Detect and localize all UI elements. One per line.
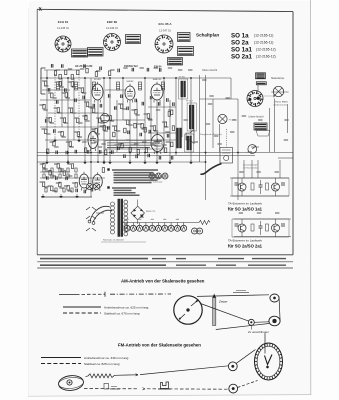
- value label 58: [184, 119, 188, 121]
- value label 74: [82, 92, 86, 94]
- value label 63: [239, 171, 243, 173]
- output stage part 13: [63, 188, 65, 192]
- heater lamp symbol 1: [124, 223, 130, 232]
- can electrolytic C50: [101, 114, 110, 123]
- value label 131: [284, 119, 288, 121]
- value label 71: [59, 86, 63, 88]
- wire vertical v19: [163, 78, 165, 152]
- svg-text:mit Netzschalter: mit Netzschalter: [243, 167, 258, 170]
- ground symbol 10: [189, 160, 193, 164]
- capacitor C8: [108, 94, 110, 98]
- heater lamp symbol 6: [156, 223, 162, 232]
- value label 40: [126, 139, 130, 141]
- capacitor C20: [75, 150, 77, 154]
- wire horizontal h25: [148, 132, 176, 134]
- value label 86: [104, 130, 108, 132]
- value label 5: [68, 81, 72, 83]
- svg-text:Schaltplan: Schaltplan: [196, 33, 219, 38]
- tube V7 ECL86 pentode: [151, 132, 164, 154]
- heater pin label 1: [125, 218, 128, 220]
- resistor R27: [164, 122, 166, 127]
- output stage part 6: [43, 174, 45, 178]
- svg-text:(Unteransicht): (Unteransicht): [274, 104, 287, 107]
- coil L6: [161, 82, 164, 90]
- can electrolytic C52: [93, 183, 99, 189]
- svg-text:2x umschlingen: 2x umschlingen: [248, 330, 269, 334]
- capacitor C35: [51, 64, 53, 68]
- legend group2 line 4: [114, 194, 140, 196]
- tube socket U3 pin legend box below: [168, 58, 183, 66]
- wire vertical v9: [97, 100, 99, 162]
- heater lamp symbol 5: [149, 223, 155, 232]
- value label 21: [118, 103, 122, 105]
- resistor R25: [147, 114, 149, 119]
- AM cord dash-dot run: [110, 293, 171, 295]
- wire horizontal h23: [251, 146, 259, 148]
- svg-text:(12-2165-12): (12-2165-12): [256, 48, 276, 52]
- striped box below socket: [254, 123, 267, 130]
- tube socket U3 pin legend box upper right: [178, 33, 191, 42]
- junction dot 6: [122, 77, 124, 79]
- wire horizontal h20: [234, 218, 291, 220]
- resistor R48: [42, 182, 44, 187]
- can electrolytic C51: [86, 183, 92, 189]
- potentiometer P1 body: [220, 148, 233, 164]
- value label 134: [284, 139, 288, 141]
- value label 111: [59, 187, 63, 189]
- value label 45: [166, 141, 170, 143]
- wire vertical v3: [61, 78, 63, 127]
- value label 103: [130, 144, 134, 146]
- value label 91: [135, 114, 139, 116]
- wire horizontal h7: [108, 119, 145, 121]
- value label 41: [134, 143, 138, 145]
- capacitor C2: [57, 100, 59, 104]
- output stage part 9: [67, 174, 69, 178]
- FM dashed cord pulley to wheel: [238, 381, 258, 388]
- wire horizontal h21: [234, 236, 291, 238]
- value label 61: [214, 135, 218, 137]
- FM cord arrow tick: [136, 374, 139, 376]
- value label 9: [96, 117, 100, 119]
- wire horizontal h16: [200, 98, 239, 100]
- wire horizontal h10: [37, 152, 293, 154]
- capacitor C6: [93, 104, 95, 108]
- junction dot 1: [46, 77, 48, 79]
- capacitor C36: [62, 64, 64, 68]
- capacitor C44: [118, 146, 120, 150]
- mains switch contact 1: [86, 207, 96, 210]
- wire vertical v31: [243, 160, 245, 178]
- capacitor C1: [48, 88, 50, 92]
- value label 89: [122, 108, 126, 110]
- value label 23: [131, 109, 135, 111]
- value label 32: [58, 131, 62, 133]
- TA-Entzerrer circuit 1 (transistors T1 T2): [232, 178, 289, 196]
- value label 16: [82, 115, 86, 117]
- wire vertical v10: [103, 78, 105, 162]
- value label 132: [217, 143, 221, 145]
- resistor R62: [47, 149, 49, 154]
- boxed note above speaker: [105, 141, 162, 150]
- tube socket U3 pin legend box lower right: [178, 47, 194, 56]
- power transformer label: [101, 239, 146, 243]
- value label 82: [72, 112, 76, 114]
- wire horizontal h8: [40, 126, 110, 128]
- value label 18: [100, 125, 104, 127]
- wire vertical v15: [136, 100, 138, 152]
- AM legend dashed cable sample: [63, 312, 101, 314]
- value label 87: [110, 120, 114, 122]
- AM top cord label marks: [233, 290, 249, 292]
- svg-text:Netztrafo 12-1344-50: Netztrafo 12-1344-50: [103, 239, 124, 242]
- value label 95: [164, 126, 168, 128]
- resistor R40: [145, 148, 147, 153]
- value label 46: [40, 163, 44, 165]
- wire horizontal h19: [230, 195, 289, 197]
- ground symbol 13: [41, 194, 45, 198]
- output stage bottom wire: [41, 196, 92, 198]
- ground symbol 8: [155, 160, 159, 164]
- capacitor C40: [132, 68, 134, 72]
- value label 10: [39, 104, 43, 106]
- value label 4: [62, 92, 66, 94]
- junction dot 12: [67, 152, 69, 154]
- value label 98: [61, 136, 65, 138]
- svg-text:← Röhre EM84: ← Röhre EM84: [273, 101, 289, 104]
- capacitor C33: [84, 190, 86, 194]
- svg-text:FM-Antrieb von der Skalenseite: FM-Antrieb von der Skalenseite gesehen: [118, 343, 201, 348]
- tube socket U3 (bottom view): [155, 35, 173, 53]
- value label 39: [118, 143, 122, 145]
- mains plug cable: [90, 206, 112, 222]
- wire vertical v20: [169, 100, 171, 162]
- speaker: [186, 130, 194, 144]
- wire vertical v8: [90, 78, 92, 197]
- junction dot 7: [144, 77, 146, 79]
- wire vertical v14: [129, 100, 131, 162]
- FM legend solid cord sample: [41, 357, 81, 359]
- FM long cord to pulley: [140, 366, 229, 375]
- value label 112: [68, 190, 72, 192]
- capacitor C19: [66, 151, 68, 155]
- value label 77: [100, 122, 104, 124]
- wire horizontal h4: [105, 89, 125, 91]
- AM idler pulley: [248, 319, 254, 325]
- value label 88: [116, 130, 120, 132]
- wire horizontal h5: [40, 99, 90, 101]
- junction dot 17: [156, 152, 158, 154]
- heater lamp symbol 9: [174, 223, 180, 232]
- wire vertical v4: [67, 78, 69, 162]
- output stage part 1: [43, 168, 45, 172]
- antenna input bracket: [41, 68, 46, 94]
- tube V4 EL95 output: [79, 172, 89, 191]
- value label 29: [168, 109, 172, 111]
- wire horizontal h3: [42, 89, 70, 91]
- value label 107: [60, 168, 64, 170]
- IF transformer Fi3: [185, 134, 194, 152]
- value label 115: [80, 68, 84, 70]
- tube socket U1 (bottom view): [55, 36, 71, 52]
- table row1 text 4: [218, 258, 244, 260]
- value label 100: [78, 136, 82, 138]
- value label 7: [84, 101, 88, 103]
- bridge wire left: [96, 212, 104, 214]
- FM legend dashed cable sample: [41, 363, 81, 365]
- resistor R14: [70, 108, 72, 113]
- legend bullet 2: [108, 187, 110, 189]
- capacitor C48: [167, 134, 169, 138]
- value label 65: [275, 171, 279, 173]
- resistor R15: [77, 118, 79, 123]
- junction dot 11: [46, 152, 48, 154]
- svg-text:EBF 89: EBF 89: [107, 20, 118, 24]
- value label 17: [91, 128, 95, 130]
- svg-text:AM-Antrieb von der Skalenseite: AM-Antrieb von der Skalenseite gesehen: [121, 279, 205, 284]
- svg-text:für SO 1a/SO 1a1: für SO 1a/SO 1a1: [228, 207, 263, 212]
- resistor R43: [43, 163, 45, 168]
- ground symbol 7: [143, 160, 147, 164]
- svg-text:B250 C75: B250 C75: [146, 211, 156, 213]
- mains plug pins: [88, 220, 95, 224]
- junction dot 22: [97, 161, 99, 163]
- legend group1 line 5: [114, 179, 158, 181]
- value label 13: [60, 117, 64, 119]
- value label 72: [66, 97, 70, 99]
- wire vertical v24: [199, 75, 201, 162]
- capacitor C22: [99, 150, 101, 154]
- value label 126: [226, 97, 230, 99]
- value label 59: [194, 141, 198, 143]
- dial lamp La2: [273, 86, 283, 96]
- output stage part 2: [51, 168, 53, 172]
- heater pin label 7: [163, 218, 166, 220]
- resistor R35: [105, 150, 107, 155]
- value label 101: [98, 146, 102, 148]
- resistor R63: [124, 128, 126, 133]
- value label 122: [178, 69, 182, 71]
- wire horizontal h13: [40, 171, 70, 173]
- wire horizontal h11: [37, 155, 255, 157]
- resistor R54: [54, 71, 56, 76]
- capacitor C15: [158, 102, 160, 106]
- heater lamp symbol 3: [137, 223, 143, 232]
- svg-text:(12-2166-11): (12-2166-11): [254, 41, 273, 45]
- frame right line: [292, 12, 294, 255]
- junction dot 18: [175, 152, 177, 154]
- resistor R47: [71, 164, 73, 169]
- resistor R19: [109, 116, 111, 121]
- resistor R41: [164, 148, 166, 153]
- table row1 text 3: [176, 258, 186, 260]
- wire vertical v22: [181, 97, 183, 137]
- value label 66: [239, 212, 243, 214]
- wire horizontal h24: [148, 106, 176, 108]
- resistor R50: [59, 182, 61, 187]
- heater pin label 3: [138, 218, 141, 220]
- resistor R33: [77, 132, 79, 137]
- table row2 text 3: [216, 264, 236, 266]
- wire vertical v37: [279, 160, 281, 178]
- legend group1 line 6: [114, 182, 152, 184]
- legend bullet 1: [108, 169, 110, 171]
- capacitor C38: [100, 67, 102, 71]
- AM umschlingen arrow: [251, 326, 253, 330]
- value label 78: [43, 109, 47, 111]
- resistor R49: [51, 186, 53, 191]
- heater lamp symbol 4: [143, 223, 149, 232]
- value label 124: [202, 79, 206, 81]
- AM bottom cord back to pointer: [216, 324, 269, 330]
- value label 64: [256, 171, 260, 173]
- resistor R28: [171, 110, 173, 115]
- legend group2 line 1: [112, 187, 136, 189]
- label Lautstaerkeregler: [243, 164, 258, 170]
- value label 133: [248, 151, 252, 153]
- value label 35: [82, 141, 86, 143]
- value label 49: [60, 170, 64, 172]
- junction dot 3: [84, 77, 86, 79]
- value label 110: [52, 190, 56, 192]
- IF transformer Fi2: [187, 103, 196, 131]
- svg-text:ECH 81: ECH 81: [58, 20, 69, 24]
- wire vertical v38: [287, 104, 289, 133]
- capacitor C4: [75, 99, 77, 103]
- resistor R52: [75, 183, 77, 188]
- capacitor C23: [112, 150, 114, 154]
- wire horizontal h6: [48, 112, 104, 114]
- value label 30: [41, 128, 45, 130]
- resistor R64: [134, 123, 136, 128]
- value label 44: [157, 139, 161, 141]
- value label 81: [64, 122, 68, 124]
- tube socket U1 pin legend box: [72, 49, 88, 57]
- svg-text:TA-Entzerrer im Laufwerk: TA-Entzerrer im Laufwerk: [228, 202, 262, 206]
- value label 102: [114, 144, 118, 146]
- heater pin label 5: [151, 218, 154, 220]
- value label 22: [124, 119, 128, 121]
- table rule bottom: [37, 267, 293, 269]
- junction dot 5: [109, 77, 111, 79]
- value label 80: [58, 112, 62, 114]
- wire vertical v33: [257, 85, 259, 91]
- resistor R12: [57, 108, 59, 113]
- coil L2: [74, 82, 77, 90]
- svg-text:(12-2166-12): (12-2166-12): [256, 55, 276, 59]
- value label 128: [206, 123, 210, 125]
- resistor R22: [127, 120, 129, 125]
- power transformer core: [118, 199, 123, 237]
- capacitor C27: [159, 156, 161, 160]
- AM cord idler to pulley: [254, 321, 269, 324]
- AM diagonal cord drum to idler: [201, 304, 250, 322]
- heater lamp symbol 8: [168, 223, 174, 232]
- Tastensatz socket 2: [155, 173, 161, 179]
- wire vertical v11: [109, 78, 111, 162]
- junction dot 25: [205, 161, 207, 163]
- AM cord end tick: [104, 292, 106, 297]
- value label 104: [162, 144, 166, 146]
- value label 53: [56, 182, 60, 184]
- wire horizontal h22: [278, 157, 293, 159]
- arrow socket to lamp: [264, 95, 276, 97]
- value label 52: [48, 185, 52, 187]
- AM left cord solid: [59, 293, 76, 295]
- value label 70: [52, 97, 56, 99]
- knob pointer: [252, 146, 255, 149]
- page left edge: [27, 8, 29, 396]
- svg-text:SO 1a: SO 1a: [231, 33, 249, 40]
- value label 3: [55, 81, 59, 83]
- value label 51: [40, 181, 44, 183]
- resistor R20: [114, 126, 116, 131]
- value label 125: [209, 95, 213, 97]
- value label 118: [123, 67, 127, 69]
- value label 130: [258, 119, 262, 121]
- tube V1 ECH81: [92, 82, 103, 103]
- handwritten mark at frame start: [39, 7, 42, 11]
- resistor R39: [137, 150, 139, 155]
- junction dot 4: [103, 77, 105, 79]
- wire vertical v23: [190, 78, 192, 162]
- value label 69: [44, 85, 48, 87]
- heater lamp symbol 7: [162, 223, 168, 232]
- value label 99: [70, 146, 74, 148]
- junction dot 13: [90, 152, 92, 154]
- junction dot 21: [90, 161, 92, 163]
- resistor R9: [99, 118, 101, 123]
- tube V2 EBF89: [125, 84, 135, 103]
- wire vertical v7: [84, 78, 86, 162]
- heater chain note star: [141, 214, 144, 218]
- page right edge: [310, 0, 312, 395]
- resistor R60: [95, 72, 97, 77]
- capacitor C12: [135, 99, 137, 103]
- resistor R10: [43, 104, 45, 109]
- trapezoid plate below socket: [256, 131, 270, 137]
- legend group2 line 3: [114, 192, 136, 194]
- capacitor C30: [56, 176, 58, 180]
- IF transformer Fi1: [179, 79, 188, 99]
- value label 106: [52, 175, 56, 177]
- capacitor C13: [142, 102, 144, 106]
- bridge wire top: [137, 200, 139, 207]
- wire vertical v1: [46, 70, 48, 162]
- FM dashed cable lower left: [84, 388, 138, 390]
- tube socket U2 pin legend box right: [126, 35, 141, 44]
- capacitor C39: [118, 69, 120, 73]
- table row2 text 2: [176, 264, 206, 266]
- wire vertical v36: [274, 99, 276, 153]
- wire vertical v26: [212, 99, 214, 148]
- EM84 socket dark pin B: [249, 98, 252, 101]
- dial lamp La1: [218, 114, 227, 123]
- resistor R55: [65, 70, 67, 75]
- capacitor C25: [136, 155, 138, 159]
- value label 27: [156, 109, 160, 111]
- rectifier bridge B250: [131, 206, 145, 220]
- wire horizontal h2: [44, 69, 80, 71]
- frame top line: [37, 9, 293, 11]
- capacitor C26: [148, 154, 150, 158]
- svg-text:ZF 460: ZF 460: [179, 77, 186, 79]
- resistor R21: [121, 104, 123, 109]
- svg-text:ZF 10,7: ZF 10,7: [186, 101, 194, 103]
- ground symbol 1: [45, 160, 49, 164]
- value label 109: [44, 186, 48, 188]
- value label 26: [150, 125, 154, 127]
